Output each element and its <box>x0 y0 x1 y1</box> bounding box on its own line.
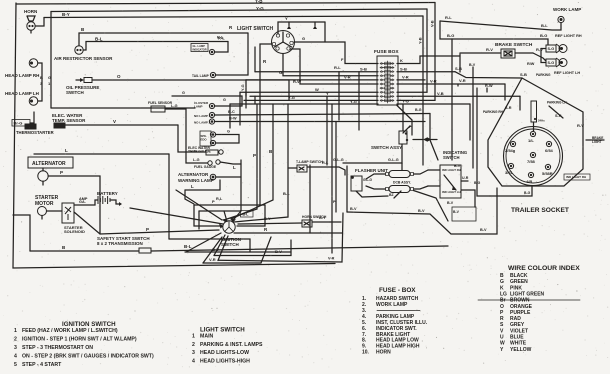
svg-text:R-L: R-L <box>445 15 452 20</box>
svg-text:SWITCH: SWITCH <box>66 90 84 95</box>
svg-text:V: V <box>113 119 116 124</box>
svg-text:3: 3 <box>192 350 195 356</box>
svg-text:T-LAMP SWITCH: T-LAMP SWITCH <box>296 160 323 164</box>
svg-text:BROWN: BROWN <box>510 298 530 304</box>
svg-text:S-R: S-R <box>555 114 562 118</box>
svg-text:IND LIGHT RH: IND LIGHT RH <box>442 168 461 172</box>
svg-text:B-G: B-G <box>524 191 531 195</box>
svg-text:B-Y: B-Y <box>264 217 271 221</box>
svg-text:B-V: B-V <box>275 249 282 254</box>
svg-text:ORANGE: ORANGE <box>510 304 533 310</box>
svg-text:HEAD LAMP LH: HEAD LAMP LH <box>5 91 39 96</box>
svg-text:WARNING LAMP: WARNING LAMP <box>178 178 214 183</box>
svg-text:B: B <box>500 273 504 279</box>
svg-text:Y-B: Y-B <box>418 37 423 44</box>
svg-text:R-V: R-V <box>577 123 584 128</box>
svg-text:B-W: B-W <box>229 117 237 121</box>
svg-text:R-V: R-V <box>536 47 543 52</box>
svg-text:L: L <box>65 148 68 153</box>
svg-text:HORN: HORN <box>24 9 37 14</box>
svg-text:TEMP. SENSOR: TEMP. SENSOR <box>52 118 86 123</box>
svg-text:R-L: R-L <box>334 65 341 70</box>
svg-text:B-V: B-V <box>350 207 357 211</box>
svg-text:FUEL GAUGE: FUEL GAUGE <box>194 165 217 169</box>
svg-text:WHITE: WHITE <box>510 341 527 347</box>
svg-text:G-L-G: G-L-G <box>388 158 399 162</box>
svg-text:V-R: V-R <box>430 79 437 84</box>
svg-text:4: 4 <box>14 354 17 360</box>
svg-text:TEMP GAUGE: TEMP GAUGE <box>188 150 211 154</box>
svg-text:R-L: R-L <box>218 36 225 41</box>
svg-text:4/R: 4/R <box>526 179 532 184</box>
svg-text:WORK LAMP: WORK LAMP <box>553 7 581 12</box>
svg-text:LAMP: LAMP <box>194 105 203 109</box>
svg-text:B-Y: B-Y <box>62 12 70 17</box>
svg-text:B-V: B-V <box>418 209 425 213</box>
svg-text:S-R: S-R <box>505 106 512 110</box>
svg-text:EDO: EDO <box>201 138 208 142</box>
svg-text:1/L: 1/L <box>528 138 534 143</box>
svg-text:V-R: V-R <box>328 257 335 261</box>
svg-text:B-G: B-G <box>474 181 481 185</box>
svg-text:G: G <box>279 70 283 75</box>
svg-text:R: R <box>500 316 504 322</box>
svg-text:IGNITION - STEP 1 (HORN SWT /: IGNITION - STEP 1 (HORN SWT / ALT W.LAMP… <box>22 337 137 343</box>
svg-text:HEAD LIGHTS-LOW: HEAD LIGHTS-LOW <box>200 350 249 356</box>
svg-text:Br-G: Br-G <box>14 121 23 126</box>
svg-text:1: 1 <box>14 328 17 334</box>
svg-text:B-V: B-V <box>469 63 476 67</box>
svg-text:B-L: B-L <box>243 213 250 217</box>
svg-text:SWITCH ASSY.: SWITCH ASSY. <box>371 145 403 150</box>
svg-text:R-L: R-L <box>216 197 223 201</box>
svg-text:R-L: R-L <box>322 161 329 165</box>
svg-text:4: 4 <box>192 359 195 365</box>
svg-text:3: 3 <box>14 345 17 351</box>
svg-text:B-C: B-C <box>228 110 235 114</box>
svg-text:W: W <box>500 341 505 347</box>
svg-text:G: G <box>227 130 230 134</box>
svg-text:2: 2 <box>14 337 17 343</box>
svg-text:L-G: L-G <box>171 104 178 108</box>
svg-text:PARKING LH: PARKING LH <box>547 101 567 105</box>
svg-text:B-L: B-L <box>283 191 290 196</box>
svg-text:REF LIGHT RH: REF LIGHT RH <box>555 34 582 38</box>
svg-text:1: 1 <box>192 334 195 340</box>
svg-text:AIR RESTRICTOR SENSOR: AIR RESTRICTOR SENSOR <box>54 56 113 61</box>
svg-text:WIRE COLOUR INDEX: WIRE COLOUR INDEX <box>508 265 580 272</box>
svg-text:G: G <box>182 91 185 95</box>
svg-text:V-R: V-R <box>344 75 351 80</box>
svg-text:Br: Br <box>500 298 506 304</box>
svg-text:ALTERNATOR: ALTERNATOR <box>32 161 66 167</box>
svg-text:BRAKE SWITCH: BRAKE SWITCH <box>495 42 533 48</box>
svg-text:THERMOSTARTER: THERMOSTARTER <box>16 130 54 135</box>
svg-text:SOLENOID: SOLENOID <box>64 229 85 234</box>
svg-text:PARKING RH: PARKING RH <box>483 110 504 114</box>
svg-text:K: K <box>400 58 403 63</box>
svg-text:B-V: B-V <box>453 210 460 214</box>
svg-text:B-Y: B-Y <box>319 216 326 220</box>
svg-text:FLASHER UNIT: FLASHER UNIT <box>355 168 388 173</box>
svg-text:7/58: 7/58 <box>527 159 536 164</box>
svg-text:R/W: R/W <box>527 62 535 66</box>
svg-text:Y: Y <box>326 91 329 96</box>
svg-text:FUEL SENSOR: FUEL SENSOR <box>148 101 173 105</box>
svg-text:G: G <box>500 279 504 285</box>
svg-text:HEAD LAMP RH: HEAD LAMP RH <box>5 73 39 78</box>
svg-text:ALTERNATOR: ALTERNATOR <box>178 172 209 177</box>
svg-text:B-V: B-V <box>447 201 454 205</box>
svg-text:B-G: B-G <box>447 33 454 38</box>
svg-text:PINK: PINK <box>510 285 522 291</box>
svg-text:PURPLE: PURPLE <box>510 310 531 316</box>
svg-text:2: 2 <box>192 342 195 348</box>
svg-text:Y-G: Y-G <box>256 6 264 11</box>
svg-text:Y-G: Y-G <box>288 95 295 100</box>
svg-text:SWITCH: SWITCH <box>443 155 460 160</box>
svg-text:S-B: S-B <box>520 72 527 77</box>
svg-text:Y-G: Y-G <box>241 84 245 91</box>
svg-text:LG: LG <box>500 291 507 297</box>
svg-text:TAIL LAMP: TAIL LAMP <box>192 74 210 78</box>
svg-text:5/58R: 5/58R <box>542 171 553 176</box>
svg-text:GA.: GA. <box>79 200 86 204</box>
svg-text:B-L: B-L <box>95 37 103 42</box>
svg-text:5: 5 <box>14 362 17 368</box>
svg-text:REF LIGHT LH: REF LIGHT LH <box>554 71 580 75</box>
svg-text:STEP - 4 START: STEP - 4 START <box>22 362 62 368</box>
svg-text:WORK LAMP: WORK LAMP <box>376 302 408 308</box>
svg-text:B-L: B-L <box>541 23 548 28</box>
svg-text:B-L: B-L <box>184 244 192 249</box>
svg-text:V-B: V-B <box>437 91 444 96</box>
svg-text:SWITCH: SWITCH <box>221 242 239 247</box>
svg-text:B-V: B-V <box>480 228 487 232</box>
svg-text:3/31: 3/31 <box>505 170 514 175</box>
svg-text:R-V: R-V <box>486 47 493 52</box>
svg-text:S-B: S-B <box>360 67 367 72</box>
svg-text:DCB ASSY.: DCB ASSY. <box>393 181 411 185</box>
svg-text:IGNITION SWITCH: IGNITION SWITCH <box>62 321 116 328</box>
svg-text:GREY: GREY <box>510 322 525 328</box>
svg-text:G: G <box>48 75 51 80</box>
svg-text:MOTOR: MOTOR <box>35 201 54 207</box>
svg-text:P: P <box>146 227 149 232</box>
svg-text:P: P <box>60 170 63 175</box>
svg-text:LIGHT SWITCH: LIGHT SWITCH <box>200 327 245 334</box>
svg-text:L: L <box>233 165 236 170</box>
svg-text:W: W <box>315 87 319 92</box>
svg-text:YELLOW: YELLOW <box>510 347 532 353</box>
svg-text:8 x 2 TRANSMISSION: 8 x 2 TRANSMISSION <box>97 241 143 246</box>
svg-text:V-R: V-R <box>459 78 466 83</box>
svg-text:PARKING: PARKING <box>536 73 551 77</box>
svg-text:B: B <box>40 75 43 80</box>
svg-text:P: P <box>253 153 256 158</box>
svg-text:B-G: B-G <box>415 108 422 112</box>
svg-text:FUSE - BOX: FUSE - BOX <box>379 287 416 294</box>
svg-text:LIGHT SWITCH: LIGHT SWITCH <box>237 26 273 32</box>
svg-text:HORN: HORN <box>376 350 391 356</box>
svg-text:B-G: B-G <box>540 33 547 38</box>
svg-text:Y-G: Y-G <box>402 99 409 104</box>
svg-text:STEP - 3 THERMOSTART ON: STEP - 3 THERMOSTART ON <box>22 345 93 351</box>
svg-text:IND LIGHT LH: IND LIGHT LH <box>442 190 461 194</box>
svg-text:Y-G: Y-G <box>350 99 357 104</box>
svg-text:NO LAMP 2: NO LAMP 2 <box>194 121 211 125</box>
svg-text:R-W: R-W <box>293 79 301 84</box>
svg-text:G-L-G: G-L-G <box>363 178 373 182</box>
svg-text:Y-B: Y-B <box>255 0 263 4</box>
svg-text:S-B: S-B <box>455 66 462 71</box>
svg-text:B-V: B-V <box>212 247 219 252</box>
svg-text:GREEN: GREEN <box>510 279 528 285</box>
svg-text:U-R: U-R <box>462 176 469 180</box>
svg-text:G: G <box>302 36 305 41</box>
svg-text:V-R: V-R <box>209 257 216 262</box>
svg-text:10.: 10. <box>362 350 370 356</box>
svg-text:L-G: L-G <box>193 158 200 162</box>
svg-text:ON - STEP 2 (BRK SWT / GAUGES: ON - STEP 2 (BRK SWT / GAUGES / INDICATO… <box>22 354 154 360</box>
svg-text:FEED (HAZ / WORK LAMP / L.SWIT: FEED (HAZ / WORK LAMP / L.SWITCH) <box>22 328 118 334</box>
svg-text:B-V: B-V <box>454 164 461 168</box>
svg-text:L: L <box>191 184 194 189</box>
svg-text:FUSE BOX: FUSE BOX <box>374 49 399 55</box>
svg-text:TRAILER SOCKET: TRAILER SOCKET <box>511 207 569 214</box>
svg-text:NO LAMP 1: NO LAMP 1 <box>194 114 211 118</box>
svg-text:2/54g: 2/54g <box>505 148 516 153</box>
svg-text:P: P <box>212 199 215 204</box>
svg-text:K: K <box>500 285 504 291</box>
svg-text:RAD: RAD <box>510 316 521 322</box>
svg-text:BLUE: BLUE <box>510 335 524 341</box>
svg-text:HEAD LIGHTS-HIGH: HEAD LIGHTS-HIGH <box>200 359 250 365</box>
svg-text:V-B: V-B <box>430 20 435 27</box>
svg-text:MAIN: MAIN <box>200 334 214 340</box>
svg-text:6/54: 6/54 <box>545 148 554 153</box>
svg-text:O: O <box>117 74 121 79</box>
svg-text:Y: Y <box>285 16 288 21</box>
svg-text:LIGHT: LIGHT <box>592 140 602 144</box>
svg-text:G: G <box>223 98 226 102</box>
svg-text:V-R: V-R <box>402 75 409 80</box>
svg-text:BATTERY: BATTERY <box>97 191 118 196</box>
svg-text:VIOLET: VIOLET <box>510 328 528 334</box>
svg-text:S-G: S-G <box>548 47 555 51</box>
svg-text:GL. LAMP: GL. LAMP <box>193 44 206 48</box>
svg-text:S-B: S-B <box>400 67 407 72</box>
svg-text:INDICATOR: INDICATOR <box>193 48 207 52</box>
svg-text:R-W: R-W <box>485 84 493 88</box>
svg-text:S-G: S-G <box>548 61 555 65</box>
svg-text:G-L-G: G-L-G <box>333 158 344 162</box>
svg-text:24Hx: 24Hx <box>538 119 545 123</box>
svg-text:IND LIGHT RH: IND LIGHT RH <box>566 175 586 179</box>
svg-text:O: O <box>500 304 504 310</box>
svg-text:LIGHT GREEN: LIGHT GREEN <box>510 291 545 297</box>
svg-text:PARKING & INST. LAMPS: PARKING & INST. LAMPS <box>200 342 263 348</box>
svg-text:U: U <box>500 335 504 341</box>
svg-text:BLACK: BLACK <box>510 273 528 279</box>
